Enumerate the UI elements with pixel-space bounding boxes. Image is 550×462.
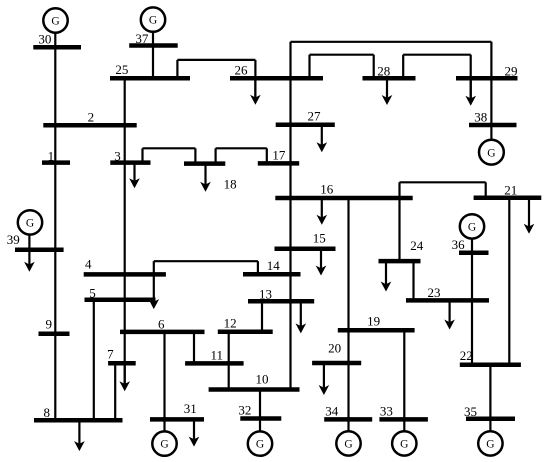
svg-text:25: 25	[115, 62, 128, 77]
svg-text:37: 37	[135, 31, 149, 46]
svg-text:15: 15	[313, 231, 326, 246]
svg-text:6: 6	[158, 317, 165, 332]
svg-text:22: 22	[460, 348, 473, 363]
svg-text:G: G	[51, 16, 59, 28]
svg-text:29: 29	[505, 63, 518, 78]
svg-text:18: 18	[224, 177, 237, 192]
svg-text:2: 2	[88, 110, 95, 125]
svg-text:23: 23	[428, 285, 441, 300]
svg-text:34: 34	[325, 403, 339, 418]
svg-text:17: 17	[272, 148, 286, 163]
svg-text:11: 11	[211, 348, 224, 363]
svg-text:28: 28	[377, 63, 390, 78]
svg-text:8: 8	[44, 405, 51, 420]
svg-text:3: 3	[114, 148, 121, 163]
svg-text:12: 12	[224, 316, 237, 331]
svg-text:9: 9	[46, 317, 53, 332]
svg-text:36: 36	[452, 237, 466, 252]
svg-text:G: G	[149, 15, 157, 27]
svg-text:20: 20	[328, 340, 341, 355]
svg-text:21: 21	[504, 183, 517, 198]
svg-text:5: 5	[89, 285, 96, 300]
svg-text:G: G	[468, 222, 476, 234]
svg-text:19: 19	[367, 314, 380, 329]
svg-text:38: 38	[474, 110, 487, 125]
svg-text:4: 4	[85, 257, 92, 272]
svg-text:G: G	[160, 439, 168, 451]
svg-text:G: G	[487, 147, 495, 159]
svg-text:G: G	[26, 218, 34, 230]
svg-text:39: 39	[7, 232, 20, 247]
svg-text:26: 26	[235, 62, 249, 77]
svg-text:16: 16	[320, 182, 334, 197]
svg-text:24: 24	[410, 238, 424, 253]
svg-text:14: 14	[267, 258, 281, 273]
svg-text:13: 13	[259, 286, 272, 301]
svg-text:27: 27	[308, 109, 322, 124]
svg-text:1: 1	[48, 148, 55, 163]
svg-text:7: 7	[107, 347, 114, 362]
svg-text:32: 32	[238, 402, 251, 417]
svg-text:G: G	[344, 439, 352, 451]
svg-text:35: 35	[464, 404, 477, 419]
svg-text:31: 31	[184, 401, 197, 416]
svg-text:G: G	[486, 439, 494, 451]
svg-text:33: 33	[380, 403, 393, 418]
svg-text:30: 30	[38, 32, 51, 47]
svg-text:10: 10	[256, 371, 269, 386]
svg-text:G: G	[256, 439, 264, 451]
svg-text:G: G	[400, 439, 408, 451]
